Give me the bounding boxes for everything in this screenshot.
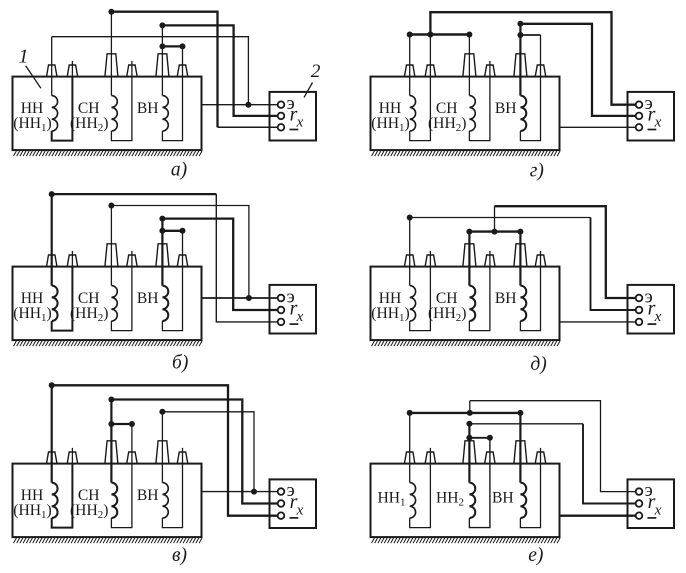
panel в): junction dot СН bar right — [129, 421, 135, 427]
svg-text:(НН1): (НН1) — [371, 305, 409, 324]
panel д): junction dot bar middle — [492, 229, 498, 235]
svg-text:(НН2): (НН2) — [428, 305, 466, 324]
svg-text:в): в) — [172, 545, 187, 566]
svg-text:(НН1): (НН1) — [371, 115, 409, 134]
panel г): bushing insulator 1 — [404, 65, 415, 77]
svg-text:(НН1): (НН1) — [13, 502, 51, 521]
svg-text:(НН2): (НН2) — [428, 115, 466, 134]
svg-text:(НН2): (НН2) — [70, 305, 108, 324]
panel б): transformer tank (node: tank body) — [13, 267, 202, 341]
panel д): terminal minus — [636, 319, 643, 326]
panel а): stub of НН second bushing — [71, 61, 73, 77]
panel б): bushing insulator 4 — [127, 255, 138, 267]
panel д): wire bar middle up — [494, 206, 496, 231]
panel в): НН coil lead up (bold) — [51, 385, 53, 482]
panel е): winding НН1 coil — [410, 483, 416, 518]
panel д): junction dot bar on СН lead — [466, 229, 472, 235]
panel б): НН coil lead up (bold) — [51, 194, 53, 286]
panel д): terminal r_x — [636, 307, 643, 314]
panel в): bushing insulator 1 — [47, 452, 58, 464]
panel а): junction dot ВН bar right — [180, 43, 186, 49]
panel г): terminal э — [636, 101, 643, 108]
panel е): bushing insulator 5 — [514, 441, 527, 464]
panel г): ВН coil lead up (bold) — [519, 24, 521, 96]
panel в): junction dot СН bar left — [108, 421, 114, 427]
panel е): wire down into r_x terminal — [583, 424, 636, 504]
panel г): junction dot bar on СН lead — [466, 32, 472, 38]
panel е): bushing insulator 4 — [485, 452, 496, 464]
panel в): stub of НН second bushing — [71, 448, 73, 464]
panel б): junction dot on ВН lead — [159, 216, 165, 222]
panel е): wire НН2 to r_x terminal — [469, 423, 583, 425]
panel а): bushing insulator 5 — [156, 54, 169, 77]
panel е): shorting bar НН1-ВН (bold) — [410, 412, 521, 414]
panel в): transformer tank (node: tank body) — [13, 464, 202, 537]
panel а): wire НН coil lead up to corner — [51, 37, 53, 96]
panel б): wire down into minus terminal — [216, 194, 278, 322]
panel а): ground hatching under tank — [14, 151, 203, 156]
panel а): НН winding return loop (bold) — [52, 77, 73, 141]
panel е): junction dot bar middle — [467, 410, 473, 416]
panel г): bushing insulator 6 — [535, 65, 546, 77]
panel б): wire ВН to r_x terminal (bold) — [162, 219, 278, 310]
panel е): winding ВН coil — [520, 483, 526, 518]
svg-text:г): г) — [530, 161, 544, 182]
panel е): ground hatching under tank — [372, 538, 561, 543]
panel д): bushing insulator 2 — [425, 255, 436, 267]
panel г): label minus dash — [648, 129, 657, 131]
panel б): megohmmeter box (2) — [270, 285, 317, 334]
panel в): СН coil lead up (bold) — [110, 400, 112, 483]
panel д): bushing insulator 4 — [485, 255, 496, 267]
panel г): shorting bar НН-НН2-СН (bold) — [410, 33, 470, 35]
svg-text:x: x — [654, 309, 662, 325]
panel г): transformer tank (node: tank body) — [371, 77, 560, 151]
panel е): terminal r_x — [636, 500, 643, 507]
panel в): terminal r_x — [278, 500, 285, 507]
panel в): ВН winding return loop — [162, 464, 182, 528]
panel д): wire down into r_x terminal — [591, 218, 636, 311]
panel а): bushing insulator 2 — [67, 65, 78, 77]
panel в): ground hatching under tank — [14, 538, 203, 543]
svg-text:ВН: ВН — [495, 290, 517, 307]
panel е): junction dot bar on ВН lead — [517, 410, 523, 416]
panel а): stub of СН second bushing — [131, 61, 133, 77]
panel а): winding СН coil — [111, 96, 117, 131]
panel в): megohmmeter box (2) — [270, 479, 317, 528]
svg-text:е): е) — [528, 545, 543, 566]
panel а): wire ВН to r_x terminal (bold) — [162, 25, 278, 116]
panel а): terminal minus — [278, 124, 285, 131]
panel а): bushing insulator 3 — [105, 54, 118, 77]
panel д): ВН coil lead up (bold) — [519, 232, 521, 286]
svg-text:(НН1): (НН1) — [13, 115, 51, 134]
panel г): bushing insulator 5 — [514, 54, 527, 77]
panel г): НН coil lead up — [409, 35, 411, 96]
panel б): junction dot on НН lead — [49, 191, 55, 197]
panel б): wire НН to minus terminal (bold top run) — [52, 193, 217, 195]
panel е): terminal minus — [636, 512, 643, 519]
panel д): wire НН to r_x terminal — [410, 217, 591, 219]
panel д): СН winding return loop — [469, 267, 490, 331]
svg-text:1: 1 — [19, 46, 29, 68]
panel б): wire tank to э terminal — [202, 297, 278, 299]
panel е): shorting bar across НН2 bushings — [469, 437, 490, 439]
panel г): wire ВН to r_x terminal (bold) — [520, 24, 636, 116]
svg-text:а): а) — [171, 159, 187, 180]
panel е): bushing insulator 3 — [463, 441, 476, 464]
panel г): megohmmeter box (2) — [628, 92, 675, 141]
panel б): bushing insulator 1 — [47, 255, 58, 267]
panel г): junction dot bar on НН second lead — [427, 32, 433, 38]
panel д): НН coil lead up — [409, 218, 411, 286]
panel д): stub of ВН second bushing — [540, 251, 542, 267]
panel б): bushing insulator 3 — [105, 244, 118, 267]
panel е): ВН winding return loop — [520, 464, 540, 528]
panel в): wire СН to r_x terminal (bold) — [111, 400, 278, 504]
panel г): winding НН coil — [410, 96, 416, 131]
panel в): winding НН coil — [52, 483, 58, 518]
svg-text:ВН: ВН — [137, 487, 159, 504]
panel в): ВН coil lead up — [161, 412, 163, 483]
panel в): bushing insulator 3 — [105, 441, 118, 464]
panel б): terminal э — [278, 295, 285, 302]
panel б): bushing insulator 2 — [67, 255, 78, 267]
svg-text:ВН: ВН — [137, 100, 159, 117]
panel а): bushing insulator 6 — [177, 65, 188, 77]
panel в): junction dot on э wire — [251, 489, 257, 495]
panel а): wire СН to minus terminal (bold) — [111, 12, 217, 128]
panel г): bushing insulator 2 — [425, 65, 436, 77]
panel а): ВН winding return loop to shorting bar — [162, 46, 182, 140]
panel а): junction dot ВН bar left — [159, 43, 165, 49]
svg-text:x: x — [296, 502, 304, 518]
panel б): terminal minus — [278, 319, 285, 326]
svg-text:ВН: ВН — [137, 290, 159, 307]
panel в): label minus dash — [290, 517, 299, 519]
panel г): wire tank to minus terminal — [560, 126, 636, 128]
svg-text:(НН1): (НН1) — [13, 305, 51, 324]
panel б): junction dot on СН lead — [108, 203, 114, 209]
panel е): megohmmeter box (2) — [628, 479, 675, 528]
panel в): НН winding return loop (bold) — [52, 464, 73, 528]
panel д): transformer tank (node: tank body) — [371, 267, 560, 341]
panel е): stub of ВН second bushing — [540, 448, 542, 464]
panel а): winding НН coil — [52, 96, 58, 131]
panel в): wire НН to minus terminal (bold) — [52, 385, 278, 515]
panel д): bushing insulator 5 — [514, 244, 527, 267]
panel г): wire bar to э terminal (bold) — [430, 12, 636, 105]
panel г): winding СН coil — [469, 96, 475, 131]
panel а): winding ВН coil — [162, 96, 168, 131]
panel г): ground hatching under tank — [372, 151, 561, 156]
svg-text:д): д) — [530, 354, 546, 375]
panel в): winding СН coil — [111, 483, 117, 518]
panel б): terminal r_x — [278, 307, 285, 314]
panel а): terminal r_x — [278, 113, 285, 120]
panel б): shorting bar across ВН bushings — [162, 230, 182, 232]
svg-text:x: x — [296, 115, 304, 131]
panel а): bushing insulator 1 — [47, 65, 58, 77]
panel а): wire into minus terminal — [218, 126, 278, 128]
panel а): transformer tank (node: tank body) — [13, 77, 202, 151]
svg-text:x: x — [654, 502, 662, 518]
svg-text:ВН: ВН — [495, 100, 517, 117]
panel а): wire tank to э terminal — [202, 104, 278, 106]
panel д): stub of НН second bushing — [429, 251, 431, 267]
panel г): СН coil lead up — [468, 35, 470, 96]
panel в): junction dot on ВН lead — [159, 409, 165, 415]
svg-text:ВН: ВН — [492, 489, 514, 506]
panel г): bushing insulator 4 — [485, 65, 496, 77]
panel е): НН2 coil lead up (bold) — [468, 424, 470, 483]
panel б): label minus dash — [290, 323, 299, 325]
panel е): НН2 winding return loop to bar — [469, 438, 490, 528]
panel в): shorting bar across СН bushings — [111, 423, 131, 425]
panel а): junction dot on СН lead — [108, 9, 114, 15]
panel д): wire tank to minus terminal — [560, 321, 636, 323]
panel а): СН winding return loop — [111, 77, 131, 141]
panel д): winding ВН coil — [520, 286, 526, 321]
panel е): wire tank to minus terminal (bold) — [560, 515, 636, 517]
panel е): НН1 winding return loop — [410, 464, 431, 528]
panel в): junction dot on НН lead — [49, 382, 55, 388]
panel в): terminal э — [278, 488, 285, 495]
panel е): bushing insulator 2 — [425, 452, 436, 464]
panel г): junction dot ВН lead upper — [517, 21, 523, 27]
panel д): winding СН coil — [469, 286, 475, 321]
svg-text:б): б) — [172, 352, 188, 373]
panel б): ground hatching under tank — [14, 341, 203, 346]
svg-text:(НН2): (НН2) — [70, 502, 108, 521]
svg-text:2: 2 — [311, 61, 321, 82]
panel г): terminal minus — [636, 124, 643, 131]
panel г): junction dot ВН lead lower — [517, 32, 523, 38]
panel г): winding ВН coil — [520, 96, 526, 131]
panel е): junction dot bar on НН1 lead — [407, 410, 413, 416]
panel е): junction dot НН2 bar right — [487, 435, 493, 441]
panel г): shorting bar across ВН bushings — [520, 34, 540, 36]
panel а): terminal э — [278, 101, 285, 108]
panel б): winding СН coil — [111, 286, 117, 321]
panel е): junction dot НН2 bar left — [466, 435, 472, 441]
panel б): stub of НН second bushing — [71, 251, 73, 267]
panel б): winding ВН coil — [162, 286, 168, 321]
panel д): СН coil lead up (bold) — [468, 232, 470, 286]
panel д): megohmmeter box (2) — [628, 285, 675, 334]
panel а): shorting bar across ВН bushings — [162, 45, 182, 47]
panel д): winding НН coil — [410, 286, 416, 321]
panel б): junction dot ВН bar left — [159, 228, 165, 234]
panel е): terminal э — [636, 488, 643, 495]
panel б): junction dot ВН bar right — [180, 228, 186, 234]
panel д): bushing insulator 3 — [463, 244, 476, 267]
panel б): ВН coil lead up (bold) — [161, 219, 163, 286]
panel г): ВН winding return loop to shorting bar — [520, 35, 540, 141]
panel б): СН winding return loop — [111, 267, 131, 331]
panel е): wire to э terminal — [470, 401, 636, 492]
panel е): junction dot on НН2 lead r_x — [466, 421, 472, 427]
panel а): label minus dash — [290, 129, 299, 131]
panel в): winding ВН coil — [162, 483, 168, 518]
panel б): junction dot on э wire — [246, 295, 252, 301]
panel г): НН winding return loop — [410, 35, 431, 141]
panel д): ground hatching under tank — [372, 341, 561, 346]
panel д): terminal э — [636, 295, 643, 302]
panel а): wire НН to э junction — [52, 37, 249, 105]
panel д): label minus dash — [648, 323, 657, 325]
panel б): НН winding return loop (bold) — [52, 267, 73, 331]
panel в): wire tank to э terminal — [202, 491, 278, 493]
panel а): callout leader line for 2 — [304, 83, 313, 98]
panel г): СН winding return loop — [469, 77, 490, 141]
panel а): junction dot on ВН lead — [159, 22, 165, 28]
panel д): bushing insulator 1 — [404, 255, 415, 267]
panel б): stub of СН second bushing — [131, 251, 133, 267]
svg-text:(НН2): (НН2) — [70, 115, 108, 134]
panel в): terminal minus — [278, 512, 285, 519]
svg-text:x: x — [654, 115, 662, 131]
panel в): bushing insulator 6 — [177, 452, 188, 464]
panel в): junction dot on СН lead — [108, 397, 114, 403]
panel в): СН winding return loop to shorting bar — [111, 424, 131, 528]
panel б): ВН winding return loop to shorting bar — [162, 231, 182, 331]
panel г): stub of СН second bushing — [489, 61, 491, 77]
panel в): bushing insulator 2 — [67, 452, 78, 464]
panel е): transformer tank (node: tank body) — [371, 464, 560, 537]
panel а): callout leader line for 1 — [26, 66, 41, 89]
panel в): bushing insulator 4 — [127, 452, 138, 464]
panel е): stub of НН1 second bushing — [429, 448, 431, 464]
panel д): junction dot on НН lead — [407, 215, 413, 221]
svg-text:x: x — [296, 309, 304, 325]
panel е): wire bar middle up to э line — [469, 401, 471, 413]
panel е): bushing insulator 6 — [535, 452, 546, 464]
panel б): bushing insulator 6 — [177, 255, 188, 267]
panel д): junction dot bar on ВН lead — [517, 229, 523, 235]
panel г): junction dot bar on НН lead — [407, 32, 413, 38]
panel а): wire СН coil lead up — [110, 12, 112, 96]
panel д): bushing insulator 6 — [535, 255, 546, 267]
panel д): stub of СН second bushing — [489, 251, 491, 267]
panel д): shorting bar СН-ВН (bold) — [469, 230, 520, 232]
panel г): terminal r_x — [636, 113, 643, 120]
panel д): wire to э terminal (bold) — [495, 206, 636, 298]
panel а): megohmmeter box (2) — [270, 92, 317, 141]
panel б): winding НН coil — [52, 286, 58, 321]
panel б): wire СН to э junction — [111, 206, 249, 299]
panel б): СН coil lead up — [110, 206, 112, 286]
panel а): bushing insulator 4 — [127, 65, 138, 77]
panel е): label minus dash — [648, 517, 657, 519]
panel д): ВН winding return loop — [520, 267, 540, 331]
panel а): junction dot on э wire — [245, 102, 251, 108]
panel е): winding НН2 coil — [469, 483, 475, 518]
panel в): wire ВН to э junction — [162, 412, 254, 492]
panel а): wire ВН coil lead up — [161, 25, 163, 95]
panel е): bushing insulator 1 — [404, 452, 415, 464]
panel в): bushing insulator 5 — [156, 441, 169, 464]
panel в): stub of ВН second bushing — [182, 448, 184, 464]
panel г): bushing insulator 3 — [463, 54, 476, 77]
panel е): НН1 coil lead up — [409, 413, 411, 483]
panel е): ВН coil lead up (bold) — [519, 413, 521, 483]
panel д): НН winding return loop — [410, 267, 431, 331]
panel б): bushing insulator 5 — [156, 244, 169, 267]
